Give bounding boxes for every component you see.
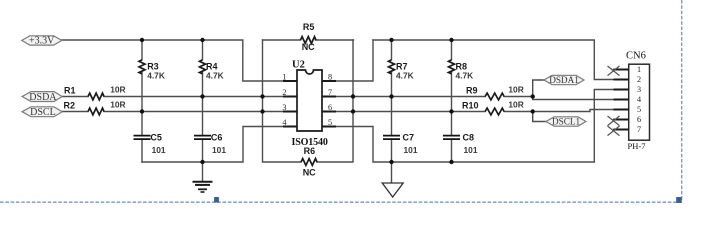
svg-text:R9: R9 [466,86,478,96]
svg-text:7: 7 [328,88,332,97]
svg-text:5: 5 [328,118,332,127]
svg-text:C7: C7 [403,133,415,143]
svg-text:R6: R6 [304,146,316,156]
svg-text:10R: 10R [508,100,523,110]
svg-text:5: 5 [637,105,641,114]
svg-text:4.7K: 4.7K [206,70,224,80]
svg-text:6: 6 [328,103,332,112]
svg-text:DSCL: DSCL [30,107,56,118]
svg-text:PH-7: PH-7 [628,141,646,151]
svg-text:3: 3 [637,85,641,94]
svg-text:10R: 10R [110,85,125,95]
svg-text:10R: 10R [508,85,523,95]
svg-text:R1: R1 [64,86,76,96]
svg-text:101: 101 [152,145,166,155]
svg-text:3: 3 [282,103,286,112]
svg-text:4.7K: 4.7K [147,70,165,80]
svg-text:R5: R5 [303,22,315,32]
svg-text:DSCL1: DSCL1 [552,117,580,127]
svg-text:NC: NC [302,42,315,52]
svg-text:101: 101 [464,145,478,155]
svg-text:2: 2 [282,88,286,97]
svg-text:R2: R2 [64,100,76,110]
svg-text:10R: 10R [110,100,125,110]
svg-text:101: 101 [212,145,226,155]
svg-text:6: 6 [637,115,641,124]
svg-text:4: 4 [637,95,641,104]
svg-text:DSDA: DSDA [29,92,57,103]
svg-text:7: 7 [637,125,641,134]
svg-text:+3.3V: +3.3V [29,36,55,47]
svg-text:CN6: CN6 [626,51,646,62]
svg-text:101: 101 [404,145,418,155]
svg-text:C8: C8 [463,133,475,143]
svg-text:C5: C5 [150,133,162,143]
svg-text:1: 1 [637,65,641,74]
svg-text:4: 4 [282,118,286,127]
svg-text:U2: U2 [292,59,305,70]
svg-text:8: 8 [328,73,332,82]
svg-text:1: 1 [282,73,286,82]
svg-text:NC: NC [303,167,316,177]
svg-text:DSDA1: DSDA1 [549,75,579,85]
svg-text:4.7K: 4.7K [396,70,414,80]
svg-text:R10: R10 [462,101,479,111]
svg-text:4.7K: 4.7K [456,70,474,80]
svg-text:2: 2 [637,75,641,84]
svg-text:C6: C6 [211,133,223,143]
